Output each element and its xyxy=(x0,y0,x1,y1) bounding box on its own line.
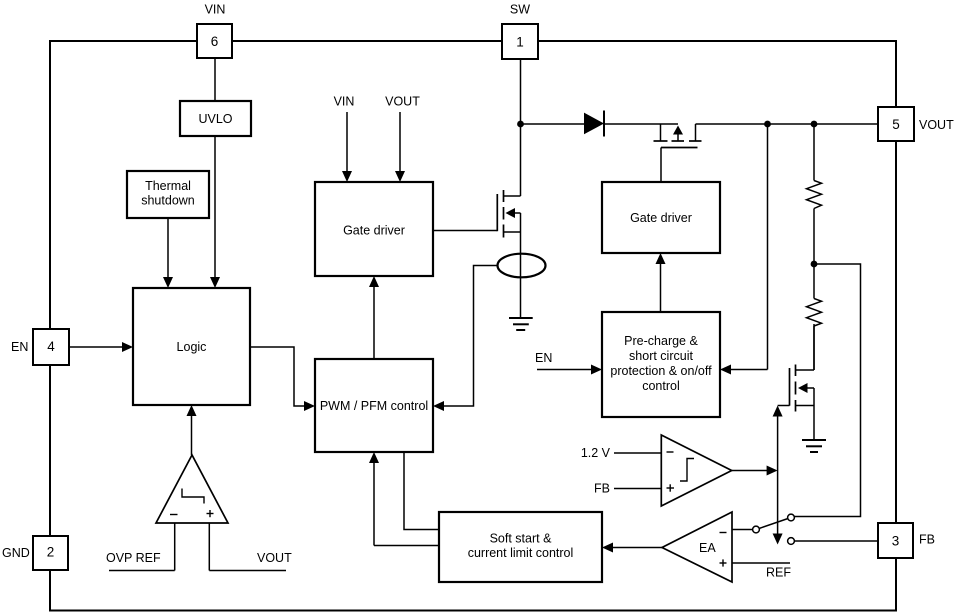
svg-text:GND: GND xyxy=(2,546,30,560)
svg-text:Gate driver: Gate driver xyxy=(343,224,405,238)
svg-text:3: 3 xyxy=(892,534,900,549)
svg-text:VOUT: VOUT xyxy=(257,551,292,565)
svg-text:VOUT: VOUT xyxy=(385,95,420,109)
svg-text:EN: EN xyxy=(535,351,552,365)
svg-text:FB: FB xyxy=(919,533,935,547)
svg-text:Soft start &: Soft start & xyxy=(490,532,552,546)
svg-text:control: control xyxy=(642,379,680,393)
svg-text:SW: SW xyxy=(510,3,530,17)
svg-text:PWM / PFM control: PWM / PFM control xyxy=(320,399,428,413)
svg-text:Thermal: Thermal xyxy=(145,179,191,193)
svg-text:FB: FB xyxy=(594,482,610,496)
svg-text:2: 2 xyxy=(47,545,55,560)
svg-text:Pre-charge &: Pre-charge & xyxy=(624,334,698,348)
svg-text:EA: EA xyxy=(699,541,716,555)
svg-text:UVLO: UVLO xyxy=(198,112,232,126)
svg-text:1: 1 xyxy=(516,35,524,50)
svg-text:REF: REF xyxy=(766,566,791,580)
svg-text:VIN: VIN xyxy=(334,95,355,109)
svg-text:1.2 V: 1.2 V xyxy=(581,446,611,460)
svg-text:EN: EN xyxy=(11,340,28,354)
svg-text:4: 4 xyxy=(47,339,55,354)
svg-text:current limit control: current limit control xyxy=(468,546,574,560)
svg-text:OVP REF: OVP REF xyxy=(106,551,161,565)
svg-text:protection & on/off: protection & on/off xyxy=(610,364,712,378)
svg-text:shutdown: shutdown xyxy=(141,193,195,207)
svg-text:Logic: Logic xyxy=(177,340,207,354)
svg-text:Gate driver: Gate driver xyxy=(630,211,692,225)
svg-text:5: 5 xyxy=(892,117,900,132)
svg-text:short circuit: short circuit xyxy=(629,349,693,363)
svg-text:VIN: VIN xyxy=(205,3,226,17)
svg-text:6: 6 xyxy=(211,34,219,49)
svg-text:VOUT: VOUT xyxy=(919,118,954,132)
